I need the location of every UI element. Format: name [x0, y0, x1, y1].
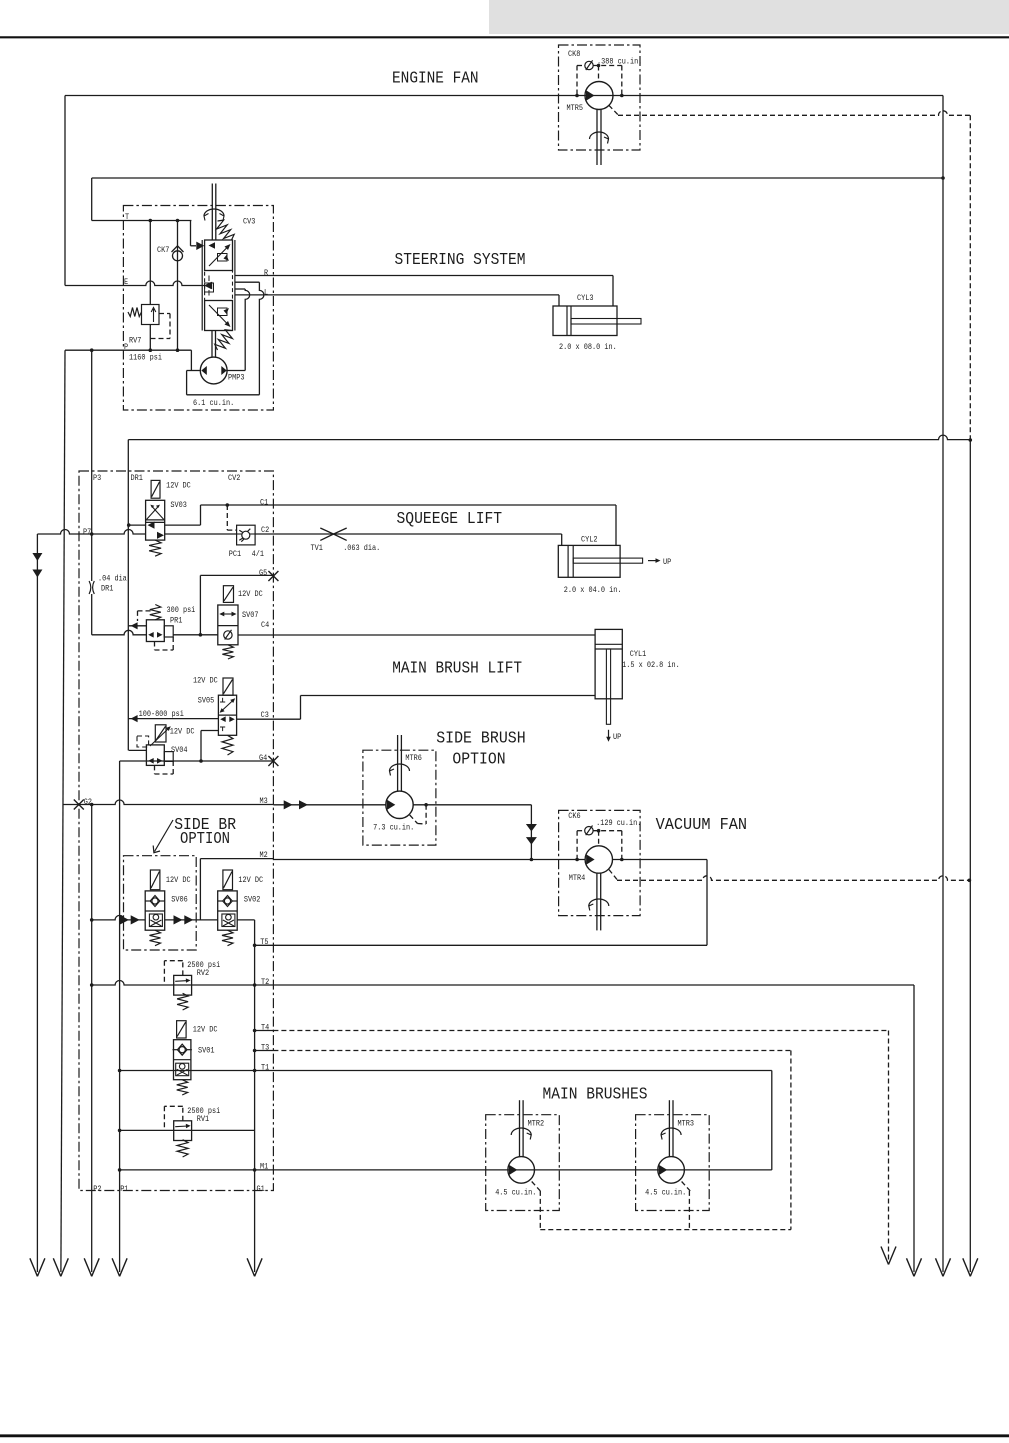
svg-text:4.5 cu.in.: 4.5 cu.in.	[645, 1188, 686, 1198]
svg-text:DR1: DR1	[131, 474, 143, 483]
svg-text:M3: M3	[260, 797, 268, 806]
svg-text:VACUUM FAN: VACUUM FAN	[656, 816, 748, 835]
svg-text:1160 psi: 1160 psi	[129, 353, 162, 363]
svg-text:7.3 cu.in.: 7.3 cu.in.	[373, 822, 414, 832]
svg-text:C4: C4	[261, 621, 269, 630]
svg-text:OPTION: OPTION	[452, 751, 505, 770]
svg-text:12V DC: 12V DC	[193, 1026, 218, 1035]
svg-text:CK8: CK8	[568, 50, 580, 59]
svg-text:2.0 x 08.0 in.: 2.0 x 08.0 in.	[559, 342, 617, 352]
svg-text:C1: C1	[260, 499, 268, 508]
svg-text:MTR5: MTR5	[567, 104, 584, 113]
svg-text:G1: G1	[257, 1185, 265, 1194]
svg-text:CYL1: CYL1	[630, 650, 647, 659]
svg-text:MTR6: MTR6	[405, 754, 422, 763]
svg-text:4.5 cu.in.: 4.5 cu.in.	[495, 1188, 536, 1198]
svg-text:CK7: CK7	[157, 246, 169, 255]
svg-text:P1: P1	[120, 1185, 128, 1194]
svg-text:R: R	[264, 269, 268, 278]
svg-text:CYL3: CYL3	[577, 294, 594, 303]
svg-text:T5: T5	[260, 938, 268, 947]
svg-text:12V DC: 12V DC	[193, 676, 218, 685]
svg-text:.04 dia: .04 dia	[98, 574, 127, 584]
svg-text:MTR2: MTR2	[528, 1120, 545, 1129]
svg-text:300 psi: 300 psi	[167, 605, 196, 615]
svg-text:C3: C3	[261, 711, 269, 720]
svg-text:.063 dia.: .063 dia.	[343, 543, 380, 553]
svg-text:TV1: TV1	[311, 544, 323, 553]
svg-text:ENGINE FAN: ENGINE FAN	[392, 69, 479, 88]
svg-text:UP: UP	[613, 733, 621, 742]
svg-text:1.5 x 02.8 in.: 1.5 x 02.8 in.	[622, 660, 680, 670]
svg-text:T3: T3	[261, 1044, 269, 1053]
svg-text:RV2: RV2	[197, 969, 209, 978]
svg-text:UP: UP	[663, 558, 671, 567]
svg-text:4/1: 4/1	[252, 549, 264, 559]
svg-text:RV1: RV1	[197, 1115, 209, 1124]
svg-text:SQUEEGE LIFT: SQUEEGE LIFT	[397, 510, 503, 529]
svg-text:PR1: PR1	[170, 617, 182, 626]
svg-text:SV02: SV02	[244, 896, 261, 905]
svg-text:P7: P7	[83, 528, 91, 537]
svg-text:T2: T2	[261, 978, 269, 987]
svg-text:RV7: RV7	[129, 337, 141, 346]
svg-text:SV05: SV05	[198, 697, 215, 706]
svg-text:12V DC: 12V DC	[166, 481, 191, 490]
svg-text:STEERING SYSTEM: STEERING SYSTEM	[395, 251, 526, 270]
svg-text:SV03: SV03	[170, 501, 187, 510]
svg-text:C2: C2	[261, 526, 269, 535]
svg-text:G5: G5	[259, 569, 267, 578]
svg-text:P2: P2	[93, 1185, 101, 1194]
svg-text:MTR4: MTR4	[569, 874, 586, 883]
svg-text:12V DC: 12V DC	[238, 590, 263, 599]
svg-text:6.1 cu.in.: 6.1 cu.in.	[193, 398, 234, 408]
svg-text:G4: G4	[259, 754, 267, 763]
svg-text:CV2: CV2	[228, 474, 240, 483]
svg-text:.129 cu.in.: .129 cu.in.	[596, 818, 641, 828]
svg-text:12V DC: 12V DC	[166, 876, 191, 885]
svg-text:CK6: CK6	[568, 812, 580, 821]
svg-text:DR1: DR1	[101, 585, 113, 594]
svg-text:MTR3: MTR3	[678, 1120, 695, 1129]
svg-text:CYL2: CYL2	[581, 536, 598, 545]
svg-text:SV01: SV01	[198, 1046, 215, 1055]
svg-text:T1: T1	[261, 1064, 269, 1073]
svg-text:P3: P3	[93, 474, 101, 483]
svg-text:T4: T4	[261, 1024, 269, 1033]
svg-text:100-800 psi: 100-800 psi	[139, 709, 184, 719]
svg-text:L: L	[264, 289, 268, 298]
svg-text:SV07: SV07	[242, 611, 259, 620]
svg-text:SV06: SV06	[171, 896, 188, 905]
svg-text:PC1: PC1	[229, 550, 241, 559]
svg-text:2.0 x 04.0 in.: 2.0 x 04.0 in.	[564, 585, 622, 595]
svg-text:12V DC: 12V DC	[170, 728, 195, 737]
svg-text:MAIN BRUSH LIFT: MAIN BRUSH LIFT	[392, 659, 522, 678]
svg-text:M1: M1	[260, 1163, 268, 1172]
svg-text:SIDE BRUSH: SIDE BRUSH	[436, 729, 526, 748]
svg-text:MAIN BRUSHES: MAIN BRUSHES	[543, 1086, 648, 1105]
svg-text:12V DC: 12V DC	[238, 876, 263, 885]
svg-text:CV3: CV3	[243, 218, 255, 227]
svg-text:OPTION: OPTION	[180, 830, 230, 849]
svg-text:PMP3: PMP3	[228, 374, 245, 383]
